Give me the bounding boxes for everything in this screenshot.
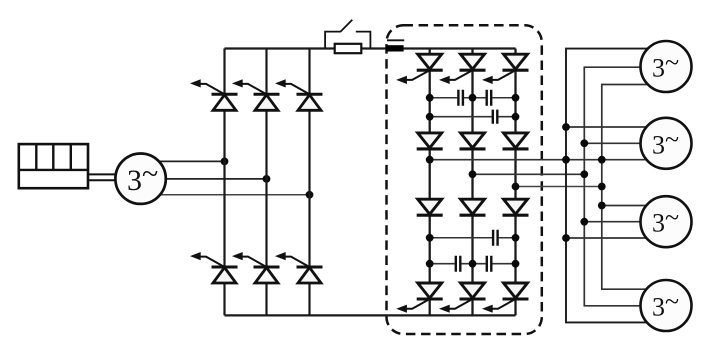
wire capacitor rail 3 [430,237,516,239]
capacitor C2 [487,90,492,106]
thyristor V10 [396,283,443,313]
node output W leg [512,183,520,191]
wire inverter leg 3 [514,49,516,316]
wire motor3 feed 1 [602,205,650,207]
capacitor C1 [458,90,463,106]
wire bottom DC rail [225,314,516,316]
motor M4 [641,280,692,331]
node phase A tap [221,158,229,166]
capacitor C3 [493,110,498,124]
diode D6 [503,199,529,215]
wire bus 2 [584,67,655,306]
resistor R1 [335,44,362,53]
node rail1 leg2 [469,94,477,102]
wire bus 3 [602,85,650,290]
node bus2 motor3 [580,218,588,226]
node rail3 leg3 [512,234,520,242]
wire motor3 feed 3 [566,237,651,239]
node output V leg [469,170,477,178]
motor M1 [641,41,692,92]
wire output U [430,159,648,161]
thyristor V6 [275,252,323,283]
motor M2 [641,118,692,169]
wire capacitor rail 4 [430,263,516,265]
wire phase A [152,160,225,162]
thyristor V11 [439,283,486,313]
wire inverter leg 2 [471,49,473,316]
thyristor V8 [439,54,486,84]
node bus2 motor2 [580,139,588,147]
capacitor C6 [487,256,492,272]
node rail2 leg3 [512,113,520,121]
engine block [19,144,88,188]
thyristor V4 [190,252,238,283]
node phase C tap [306,191,314,199]
node bus1 motor3 [562,234,570,242]
capacitor C5 [456,256,461,272]
thyristor V1 [190,79,238,110]
wire motor3 feed 2 [584,221,651,223]
thyristor V9 [482,54,529,84]
node bus3 motor3 [598,202,606,210]
capacitor C4 [493,230,498,246]
diode D3 [503,133,529,149]
wire motor2 feed 1 [566,126,650,128]
node bus1 output U [562,156,570,164]
node rail1 leg1 [426,94,434,102]
wire capacitor rail 1 [430,97,516,99]
node bus3 motor2 [598,156,606,164]
thyristor V5 [232,252,280,283]
node bus2 output V [580,170,588,178]
diode D2 [460,133,486,149]
thyristor V7 [396,54,443,84]
node bus1 motor2 [562,123,570,131]
wire motor2 feed 2 [584,142,651,144]
node output U leg [426,156,434,164]
node rail2 leg1 [426,113,434,121]
switch S1 [325,20,370,49]
node rail1 leg3 [512,94,520,102]
wire rectifier leg 3 [308,49,310,316]
connector X1 [386,40,405,51]
wire inverter leg 1 [429,49,431,316]
wire bus 1 [566,49,652,323]
dashed enclosure (inverter module) [387,25,542,334]
wire output W [516,186,602,188]
diode D4 [417,199,443,215]
wire rectifier leg 1 [223,49,225,316]
wire rectifier leg 2 [265,49,267,316]
wire phase C [152,194,310,196]
node bus3 output W [598,183,606,191]
node rail4 leg3 [512,260,520,268]
diode D5 [460,199,486,215]
node rail3 leg1 [426,234,434,242]
diode D1 [417,133,443,149]
motor M3 [641,196,692,247]
node rail4 leg1 [426,260,434,268]
node rail4 leg2 [469,260,477,268]
node phase B tap [263,175,271,183]
wire top DC rail [225,47,516,49]
thyristor V2 [232,79,280,110]
shaft coupling [88,174,117,180]
thyristor V3 [275,79,323,110]
wire output V [473,173,585,175]
wire phase B [160,178,267,180]
wire capacitor rail 2 [430,116,516,118]
thyristor V12 [482,283,529,313]
generator G1 [115,154,165,204]
